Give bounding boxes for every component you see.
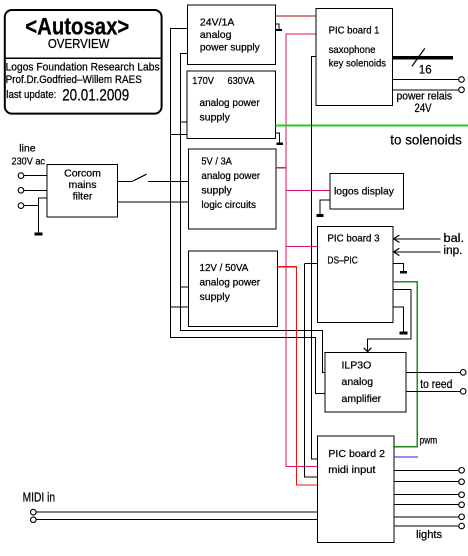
wire 5V magenta net (286, 34, 317, 466)
wire switch to 5V supply (148, 180, 189, 182)
svg-text:supply: supply (200, 291, 231, 303)
svg-text:to solenoids: to solenoids (390, 131, 462, 147)
relay terminal 2 circle (459, 87, 465, 93)
wire 24V dark red to PIC board 1 (276, 15, 316, 17)
relay terminal 1 circle (459, 77, 465, 83)
wire lights output 4 (394, 504, 459, 506)
terminal N circle (18, 188, 24, 194)
wire lights output 6 (394, 525, 459, 527)
lights terminal 2 circle (459, 479, 465, 485)
svg-text:logic circuits: logic circuits (201, 199, 256, 211)
wire terminal N to filter (24, 189, 47, 191)
wire bus1 tap to 170V supply (171, 134, 188, 136)
svg-text:to reed: to reed (420, 377, 452, 391)
wire lights output 1 (394, 469, 459, 471)
wire terminal L to filter (24, 175, 47, 177)
wire to reed 2 (406, 390, 460, 392)
svg-text:line: line (19, 143, 36, 155)
title box (4, 10, 163, 114)
wire PE junction to filter (39, 198, 47, 233)
svg-text:power relais: power relais (397, 91, 453, 103)
wire magenta tap PIC board 3 (286, 245, 317, 247)
PIC board 1 box (316, 8, 392, 105)
svg-text:MIDI in: MIDI in (23, 491, 56, 505)
12V/50VA power supply box (189, 251, 278, 326)
svg-text:analog power: analog power (200, 277, 261, 289)
wire mains bus 2 (181, 54, 325, 373)
wire lights output 3 (394, 494, 459, 496)
wire lights output 5 (394, 516, 459, 518)
svg-text:20.01.2009: 20.01.2009 (62, 85, 129, 104)
svg-text:last update:: last update: (6, 89, 56, 101)
svg-text:12V / 50VA: 12V / 50VA (200, 262, 249, 274)
wire MIDI 1 (36, 511, 317, 513)
wire lights output 2 (394, 481, 459, 483)
lights terminal 5 circle (459, 514, 465, 520)
wire terminal PE (24, 205, 39, 207)
wire bal input arrow (394, 235, 441, 242)
24V/1A supply text (200, 17, 261, 54)
svg-text:logos display: logos display (334, 185, 395, 197)
svg-text:mains: mains (68, 179, 96, 191)
lights terminal 4 circle (459, 502, 465, 508)
svg-text:OVERVIEW: OVERVIEW (48, 37, 110, 51)
wire inp input arrow (394, 248, 441, 255)
svg-text:170V: 170V (192, 75, 214, 87)
corcom text (64, 167, 101, 202)
svg-text:PIC board 3: PIC board 3 (327, 233, 379, 245)
reed terminal 1 circle (460, 370, 466, 376)
PIC board 3 text (327, 233, 379, 267)
ILP30 text (342, 360, 382, 405)
svg-text:analog power: analog power (200, 97, 261, 109)
5V/3A power supply box (189, 149, 276, 229)
lights terminal 1 circle (459, 468, 465, 474)
svg-text:DS–PIC: DS–PIC (327, 254, 358, 266)
wire to reed 1 (406, 371, 460, 373)
svg-text:amplifier: amplifier (342, 393, 382, 405)
wire serial branch to PIC2 (305, 264, 318, 478)
wire filter to switch (118, 180, 133, 182)
svg-text:inp.: inp. (444, 245, 463, 257)
MIDI terminal 1 circle (31, 509, 37, 515)
wire bus1 tap to 12V supply (171, 306, 189, 308)
24V/1A power supply box (188, 5, 276, 64)
svg-text:lights: lights (416, 529, 442, 541)
wire relay 2 (392, 89, 458, 91)
svg-text:saxophone: saxophone (329, 44, 376, 56)
wire filter neutral to 5V supply (118, 201, 189, 203)
wire green pwm net (393, 282, 417, 447)
svg-text:230V ac: 230V ac (12, 155, 46, 167)
wire relay 1 (392, 79, 458, 81)
wire mains bus 1 (171, 28, 325, 393)
svg-text:supply: supply (201, 185, 232, 197)
170V 630VA power supply box (187, 71, 276, 138)
wire 12V red net (277, 267, 317, 485)
svg-text:filter: filter (73, 190, 93, 202)
ground at 170V supply (276, 133, 283, 143)
svg-text:ILP3O: ILP3O (342, 360, 372, 372)
wire MIDI 2 (36, 519, 317, 521)
svg-text:PIC board 2: PIC board 2 (328, 448, 385, 460)
ground earth bar (35, 232, 43, 235)
wire green to solenoids (276, 125, 468, 127)
svg-text:bal.: bal. (444, 233, 465, 245)
switch blade (132, 174, 146, 181)
lights terminal 3 circle (459, 492, 465, 498)
reed terminal 2 circle (460, 389, 466, 395)
ground 1 at PIC board 3 (393, 264, 407, 273)
svg-text:Corcom: Corcom (64, 167, 101, 179)
solenoid bus slash (412, 48, 425, 66)
svg-text:power supply: power supply (200, 41, 261, 53)
svg-text:analog power: analog power (201, 170, 260, 182)
ground at 24V supply (276, 24, 283, 30)
logos display box (330, 173, 403, 209)
170V supply text (192, 75, 260, 123)
svg-text:analog: analog (200, 29, 232, 41)
ground at logos display (317, 200, 331, 215)
wire serial branch to PIC3 (305, 263, 318, 265)
svg-text:Prof.Dr.Godfried–Willem RAES: Prof.Dr.Godfried–Willem RAES (6, 74, 142, 86)
PIC board 1 text (329, 24, 386, 69)
PIC board 3 box (317, 227, 393, 323)
PIC board 2 box (317, 436, 394, 542)
wire bus2 tap to 12V supply (181, 286, 189, 288)
12V supply text (200, 262, 261, 303)
wire blue stub (394, 456, 418, 458)
ILP30 amplifier box (325, 353, 406, 412)
terminal PE circle (18, 203, 24, 209)
svg-text:PIC board 1: PIC board 1 (329, 24, 380, 36)
svg-text:pwm: pwm (420, 434, 438, 446)
wire bus2 tap to 170V supply (181, 121, 187, 123)
svg-text:16: 16 (419, 65, 432, 77)
svg-text:supply: supply (200, 111, 231, 123)
svg-text:24V: 24V (415, 103, 432, 115)
lights terminal 6 circle (459, 523, 465, 529)
svg-text:5V / 3A: 5V / 3A (201, 156, 232, 168)
PIC board 2 text (328, 448, 385, 476)
MIDI terminal 2 circle (31, 517, 37, 523)
wire PIC3 to ILP30 amplifier (368, 290, 412, 351)
solenoid bus thick line (392, 56, 453, 59)
terminal L circle (18, 173, 24, 179)
5V supply text (201, 156, 260, 212)
wire magenta tap 5V supply (276, 167, 286, 169)
wire serial net PIC1 to PIC2 (312, 57, 318, 460)
arrowhead into ILP30 (364, 348, 372, 352)
svg-text:analog: analog (342, 376, 374, 388)
wire magenta tap logos display (286, 189, 330, 191)
svg-text:Logos Foundation Research Labs: Logos Foundation Research Labs (6, 61, 160, 73)
svg-text:midi input: midi input (328, 464, 375, 476)
corcom mains filter box (47, 165, 118, 218)
svg-text:24V/1A: 24V/1A (200, 17, 234, 29)
ground 2 at PIC board 3 (393, 307, 408, 333)
svg-text:key solenoids: key solenoids (329, 57, 386, 69)
svg-text:630VA: 630VA (228, 75, 255, 87)
